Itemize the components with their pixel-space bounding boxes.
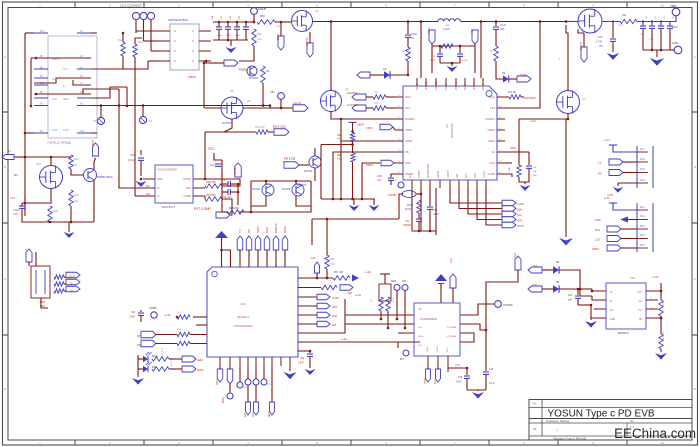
capacitor C39 (456, 368, 470, 390)
connector J6 body (31, 266, 50, 298)
wire bottom join (22, 190, 94, 223)
flag PET-CH (274, 129, 289, 136)
label HGATE1 (524, 96, 536, 100)
svg-text:NRST: NRST (269, 410, 271, 417)
terminal SCL tp (402, 280, 408, 291)
svg-text:S2: S2 (149, 119, 153, 123)
svg-text:2N7002: 2N7002 (304, 170, 313, 173)
svg-text:NRST: NRST (283, 225, 287, 233)
label MCU led (152, 354, 158, 358)
svg-text:PCA9306DBM0: PCA9306DBM0 (420, 318, 438, 321)
label 45 gray (230, 89, 234, 93)
flag HG5 down (306, 37, 313, 57)
wire long row y106 ext (269, 105, 271, 107)
wire C30 gnd (140, 170, 143, 180)
svg-text:+BAT: +BAT (672, 25, 679, 29)
wire R16 bottom (71, 169, 84, 175)
capbank2 labels (640, 16, 675, 41)
wire Q10 drain (50, 156, 53, 166)
U10 ref labels (618, 276, 635, 335)
svg-text:10uF: 10uF (226, 35, 231, 37)
wire Q3 right rail (313, 20, 437, 23)
svg-text:PET-FB: PET-FB (284, 157, 295, 161)
svg-text:VCONNA: VCONNA (447, 326, 457, 329)
wire u12 r row9 (298, 350, 310, 352)
wire Dminus long (35, 93, 83, 96)
resistor R11 (618, 14, 637, 27)
svg-text:Drawdown Stanley: Drawdown Stanley (546, 419, 570, 423)
ground j3 (613, 187, 623, 193)
svg-text:PGND2: PGND2 (405, 117, 415, 121)
wire u10 out (658, 283, 662, 300)
svg-text:5V1: 5V1 (533, 284, 538, 287)
label HGATE2 l (347, 91, 358, 95)
terminal COMP mcu (149, 306, 157, 318)
wire capbank right (248, 21, 254, 23)
wire D- weave (83, 89, 119, 106)
ground leds (132, 378, 144, 385)
terminal +BAT (670, 4, 680, 16)
transistor 2N7002 mid (247, 66, 259, 80)
svg-text:D: D (174, 59, 176, 63)
svg-text:TX: TX (598, 161, 602, 165)
svg-text:VDD: VDD (418, 345, 423, 347)
svg-text:B: B (4, 165, 6, 169)
svg-text:+LIN: +LIN (530, 119, 536, 123)
svg-text:R11: R11 (622, 14, 627, 17)
wire v1 row (505, 147, 519, 165)
label PDRV u1 (366, 163, 373, 167)
svg-text:VBUS: VBUS (357, 123, 364, 127)
label -GND j5 (594, 218, 601, 222)
svg-text:S1: S1 (93, 119, 97, 123)
svg-text:CLND: CLND (517, 202, 524, 206)
J1 pin stubs (34, 33, 91, 133)
flag CC1 up pca (514, 252, 521, 276)
wire dn row (156, 343, 207, 345)
capacitor C34 (298, 351, 313, 368)
wire bst2 drop (420, 22, 422, 79)
terminal INT tp (398, 333, 409, 361)
svg-text:1uF: 1uF (533, 171, 537, 173)
svg-text:R55 10K: R55 10K (206, 181, 216, 184)
diode D2 (502, 72, 509, 83)
capacitor C2A (13, 203, 25, 216)
U5 pins left (158, 31, 170, 61)
flag D3 left (528, 265, 542, 273)
svg-text:CSP2: CSP2 (405, 128, 413, 132)
svg-text:C32: C32 (131, 311, 136, 314)
svg-text:FB: FB (405, 150, 409, 154)
svg-text:Q: Q (192, 39, 194, 43)
svg-text:CC3: CC3 (450, 258, 453, 263)
svg-text:R1B: R1B (53, 210, 58, 213)
svg-text:VDRV: VDRV (473, 83, 476, 90)
flag COMP up (233, 163, 241, 177)
resistor R14 (177, 312, 190, 319)
svg-text:VCONN: VCONN (503, 303, 512, 307)
svg-text:VBUS: VBUS (91, 140, 95, 147)
svg-text:D+: D+ (52, 78, 56, 81)
J1 label TYPE-C-PF09A (47, 141, 72, 145)
capbank labels (212, 15, 241, 37)
capacitor bank C18 C13 C14 C15 (216, 22, 249, 40)
label NC texts (651, 296, 653, 310)
svg-text:C10: C10 (210, 164, 215, 167)
svg-text:CSP5: CSP5 (277, 33, 280, 40)
terminal C20UH (251, 8, 267, 15)
terminal CC1 pad (132, 12, 139, 33)
svg-text:INT1: INT1 (517, 219, 523, 223)
resistor R1C (152, 347, 169, 361)
wire blue rail (565, 20, 578, 23)
power bar VBUS (349, 122, 357, 132)
wire r2 to d1 (407, 61, 409, 75)
ground u12 (283, 372, 296, 379)
svg-text:CST5: CST5 (517, 224, 524, 228)
wire pdrv junction (205, 60, 211, 63)
svg-text:J5-3: J5-3 (640, 225, 645, 228)
svg-text:10uF: 10uF (235, 35, 240, 37)
wire j3 p4 (618, 183, 637, 186)
wire PET-CH left drop (204, 132, 207, 180)
flag INT1 r (502, 217, 516, 223)
svg-text:D-: D- (70, 282, 73, 286)
svg-text:VIN: VIN (270, 90, 274, 94)
flag CST5 r (502, 222, 516, 228)
svg-text:Q: Q (192, 49, 194, 53)
flag BOOT0 down (227, 366, 233, 393)
svg-text:C40: C40 (489, 369, 494, 371)
svg-text:V1: V1 (492, 150, 496, 154)
wire GND row (24, 132, 97, 135)
svg-text:C12: C12 (405, 220, 410, 223)
svg-text:A12: A12 (80, 130, 85, 133)
label VBUS mid (188, 75, 196, 79)
resistor R2L (337, 133, 355, 142)
svg-text:R52 10K: R52 10K (206, 194, 216, 197)
flag T+ left (2, 149, 14, 160)
label CC1 CC2 VOUT (120, 4, 142, 8)
wire comp drop (237, 183, 240, 205)
wire stem gnd (68, 222, 70, 232)
wire u12 l1 (176, 316, 207, 319)
svg-text:A4: A4 (533, 427, 537, 431)
wire vcc drop (214, 153, 222, 212)
flag VTMV (509, 76, 531, 82)
svg-text:J5-1: J5-1 (640, 206, 645, 209)
flag LGATE2 l (352, 105, 366, 111)
terminal tp4 (253, 366, 259, 385)
wire u9 cc1 (448, 367, 468, 370)
svg-text:BST2: BST2 (416, 83, 419, 90)
svg-text:40R: 40R (276, 26, 280, 28)
resistor R1B vert (48, 206, 58, 222)
J6 resistor pack (54, 275, 64, 293)
flag u9 b2 (435, 366, 441, 384)
svg-text:Rev: Rev (630, 420, 635, 423)
resistor R61 (659, 331, 665, 349)
svg-text:L2A: L2A (13, 213, 18, 216)
svg-text:STM32F042K6: STM32F042K6 (234, 324, 253, 328)
wire QH4 emitter (93, 180, 95, 190)
svg-text:DRV5: DRV5 (445, 83, 448, 90)
svg-text:COMP: COMP (388, 193, 397, 197)
svg-text:R61 10K: R61 10K (663, 331, 665, 340)
svg-text:NC: NC (639, 301, 643, 303)
EEChina.com watermark (614, 426, 696, 441)
svg-text:SDA: SDA (517, 208, 523, 212)
svg-text:BOOT0: BOOT0 (274, 223, 278, 233)
label CSP1 l (366, 126, 373, 130)
svg-text:NC: NC (610, 310, 614, 312)
wire r11 to caps (637, 20, 671, 22)
capacitor C1 (405, 22, 418, 41)
svg-text:+BAT: +BAT (510, 147, 516, 150)
svg-text:DRVCC: DRVCC (435, 81, 438, 90)
wire u12 l0 (196, 324, 207, 326)
svg-text:INT: INT (400, 358, 404, 361)
wire q2 right bus (566, 119, 568, 237)
resistor R2 vert (402, 38, 410, 61)
resistor R50 (257, 14, 280, 28)
flag d4 left (357, 72, 384, 78)
svg-text:CSN1: CSN1 (488, 128, 496, 132)
ground u1 a (349, 199, 360, 211)
svg-text:W1R: W1R (618, 25, 623, 27)
svg-text:NRST: NRST (592, 247, 599, 251)
flag PET-FB (284, 162, 309, 169)
flag D- small (66, 279, 80, 285)
svg-text:OSC1: OSC1 (217, 378, 219, 385)
svg-text:SIPFNE36T8AZ: SIPFNE36T8AZ (168, 18, 188, 22)
resistor R6 (441, 44, 453, 48)
flag SDA r (502, 206, 516, 212)
svg-text:D-: D- (63, 85, 66, 88)
U11 inner label (157, 169, 191, 199)
flag DN mcu (137, 340, 156, 347)
svg-text:2N7002: 2N7002 (282, 188, 291, 191)
flag swdio down (244, 385, 251, 417)
svg-text:1uF: 1uF (568, 300, 573, 302)
mosfet Q6 (221, 97, 243, 119)
U12 inner labels (234, 302, 253, 328)
wire top rail right (461, 20, 567, 23)
wire j3 p1 (604, 139, 637, 152)
svg-text:EN: EN (409, 174, 412, 178)
svg-text:10K: 10K (509, 167, 511, 171)
ground mid right (559, 238, 573, 246)
svg-text:U10: U10 (630, 276, 635, 280)
svg-text:2N7002: 2N7002 (297, 183, 307, 187)
wire j5 p1 (604, 197, 637, 210)
svg-text:C39: C39 (458, 377, 463, 379)
flag CH-IN (280, 101, 308, 111)
svg-text:BST1: BST1 (482, 83, 485, 90)
svg-text:+CT: +CT (10, 196, 16, 200)
svg-text:LED2: LED2 (197, 369, 204, 372)
svg-text:HGATE2: HGATE2 (347, 91, 358, 95)
ground U11 (136, 181, 147, 187)
ground u1 b (369, 199, 380, 211)
terminal CC2 pad (140, 12, 147, 38)
wire vert to S4 (100, 106, 102, 118)
svg-text:Q10: Q10 (36, 162, 41, 166)
svg-text:20.9K: 20.9K (405, 208, 412, 211)
wire D+ weave (34, 78, 91, 85)
svg-text:Q3: Q3 (315, 9, 319, 13)
wire C20UH down (253, 15, 256, 24)
wire top rail left (436, 21, 438, 23)
terminal tp5 (261, 366, 272, 386)
flag LED2 r (169, 366, 204, 372)
label PDRV (239, 68, 249, 72)
svg-text:NC: NC (651, 306, 653, 310)
svg-text:CSP1: CSP1 (366, 126, 373, 130)
svg-text:VCC: VCC (471, 29, 474, 34)
flag PDRV u1 (381, 160, 395, 166)
label LGATE2 l (347, 103, 358, 107)
svg-text:Q4: Q4 (345, 87, 349, 91)
wire vdrv1 drop (480, 22, 482, 79)
wire CC bus right (123, 56, 135, 196)
wire d4 right (390, 74, 409, 77)
label VCC mid (208, 147, 215, 151)
resistor R57 (333, 272, 350, 280)
svg-text:0.5uF: 0.5uF (411, 33, 418, 36)
capacitor C41 (568, 288, 581, 305)
svg-text:+L1N: +L1N (355, 294, 361, 297)
flag D6 left (528, 284, 542, 292)
svg-text:GND: GND (610, 319, 615, 321)
svg-text:SCL: SCL (332, 324, 337, 327)
resistor R7 vert (490, 30, 498, 61)
wire J6 top (29, 252, 36, 266)
svg-text:1500pF: 1500pF (403, 224, 412, 227)
svg-text:BOOT: BOOT (223, 396, 225, 403)
svg-text:C20UH: C20UH (258, 8, 266, 11)
wire +l1n stub (344, 299, 346, 333)
resistor R19 vert (69, 190, 79, 206)
U12 pin1 mark (212, 271, 218, 277)
svg-text:QFN5X5X32: QFN5X5X32 (450, 123, 454, 138)
terminal VCONN (495, 301, 513, 308)
resistor R5E vert (325, 255, 335, 279)
diode D4 (383, 68, 390, 79)
capacitor C12 (403, 219, 422, 231)
ground capbank2 (650, 58, 664, 66)
svg-text:EEChina.com: EEChina.com (614, 426, 696, 441)
label +3.3V mcu (164, 314, 171, 317)
resistor R56 (321, 285, 337, 296)
svg-text:CC3: CC3 (447, 347, 449, 352)
svg-text:C41: C41 (568, 295, 573, 297)
svg-text:+3.3V: +3.3V (164, 314, 171, 317)
terminal VOUT pad (147, 12, 154, 43)
U12 top flags (237, 236, 288, 267)
wire q2 source (567, 114, 569, 120)
header J5 labels (640, 206, 645, 247)
wire hg1 (505, 96, 509, 98)
label 2N7002 q6 (222, 121, 232, 125)
svg-text:450R: 450R (257, 39, 263, 41)
svg-text:+3.3V: +3.3V (652, 276, 659, 279)
svg-text:0.5uF: 0.5uF (129, 316, 136, 319)
flag u12 GPIO2 (298, 303, 338, 309)
svg-text:+L1N: +L1N (341, 338, 347, 341)
svg-text:CH-IN: CH-IN (293, 101, 301, 105)
svg-text:DN: DN (137, 343, 141, 347)
mosfet Q5 (578, 9, 602, 33)
svg-text:U1: U1 (445, 124, 449, 128)
svg-text:COMP: COMP (418, 170, 421, 178)
U5 pin letters (174, 29, 194, 63)
wire pair top (251, 180, 311, 183)
wire d6 (542, 288, 581, 291)
flag u12 GPIO3 (298, 312, 337, 318)
flag D+ small (66, 286, 80, 292)
svg-text:J3-1: J3-1 (640, 148, 645, 151)
svg-text:CPET5: CPET5 (447, 169, 450, 178)
U1 pin1 mark (486, 91, 492, 97)
resistor R2B mcu (177, 329, 190, 337)
wire J6 bottom (41, 298, 48, 308)
svg-text:IN2-S: IN2-S (418, 336, 424, 338)
svg-text:GND: GND (157, 178, 163, 181)
svg-text:SDA: SDA (332, 315, 337, 318)
svg-text:VCC: VCC (464, 85, 467, 90)
flag T- up (24, 247, 32, 262)
resistor R12 (508, 91, 521, 99)
U9 left pins (402, 315, 414, 342)
resistor R55 (205, 181, 222, 188)
svg-text:CC1: CC1 (514, 252, 517, 258)
svg-text:CSP1: CSP1 (488, 139, 496, 143)
wire u12 r row8 (298, 338, 420, 352)
wire u12 r rows top (298, 277, 333, 279)
svg-text:R23 10K: R23 10K (229, 207, 239, 210)
U10 inner labels (610, 292, 643, 321)
svg-text:5V0: 5V0 (533, 265, 538, 268)
resistor R13 (255, 126, 268, 134)
svg-text:1uF: 1uF (377, 180, 382, 182)
wire u12 gnd pin (289, 366, 291, 371)
svg-text:NCP4371: NCP4371 (162, 205, 175, 209)
wire VBUS row2 (30, 57, 91, 108)
svg-text:4.7uF: 4.7uF (462, 60, 468, 62)
wire u10 gnd (590, 304, 598, 320)
connector J1 TYPE-C-PF09A body (48, 36, 97, 138)
flag PDRV (211, 60, 238, 66)
svg-text:NC: NC (651, 296, 653, 300)
diode D3 (553, 261, 560, 274)
svg-text:GND: GND (63, 129, 69, 132)
svg-text:YOSUN Type c PD EVB: YOSUN Type c PD EVB (547, 409, 654, 420)
svg-text:CLND: CLND (332, 297, 339, 300)
wire r2l r2d join (351, 142, 354, 153)
diode D6 (553, 281, 560, 293)
wire vert to S5 (142, 106, 144, 117)
svg-text:VBUS: VBUS (188, 75, 196, 79)
resistor R30 (373, 92, 386, 99)
resistor R15 mcu (177, 341, 190, 350)
flag CSP5 down (277, 33, 284, 50)
svg-text:10nF: 10nF (456, 382, 462, 384)
U11 left pins (143, 179, 155, 196)
wire u1 sda scl right (450, 188, 502, 225)
wire r7 to d2 (496, 61, 503, 79)
svg-text:SCK: SCK (265, 227, 269, 233)
